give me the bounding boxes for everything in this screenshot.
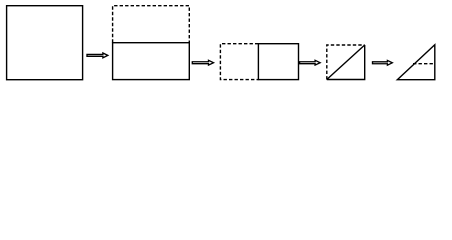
arrow 4 <box>373 60 393 65</box>
solid small square of step 3 <box>258 44 298 80</box>
hidden edge (dashed) inside final triangle <box>413 63 435 65</box>
folded-away upper-left triangle (dashed edges) of step 4 <box>327 45 365 80</box>
final folded triangle of step 5 <box>397 45 435 80</box>
solid right/bottom edges of step 4 square <box>327 45 365 80</box>
diagonal fold crease of step 4 <box>327 45 365 80</box>
arrow 2 <box>192 60 213 65</box>
folded-away upper half (dashed) of step 2 <box>113 6 190 43</box>
solid lower half rectangle of step 2 <box>113 43 190 80</box>
square S1 (unfolded paper) <box>7 6 83 80</box>
arrow 3 <box>300 60 321 65</box>
folded-away left half (dashed) of step 3 <box>220 44 258 80</box>
arrow 1 <box>87 53 108 58</box>
